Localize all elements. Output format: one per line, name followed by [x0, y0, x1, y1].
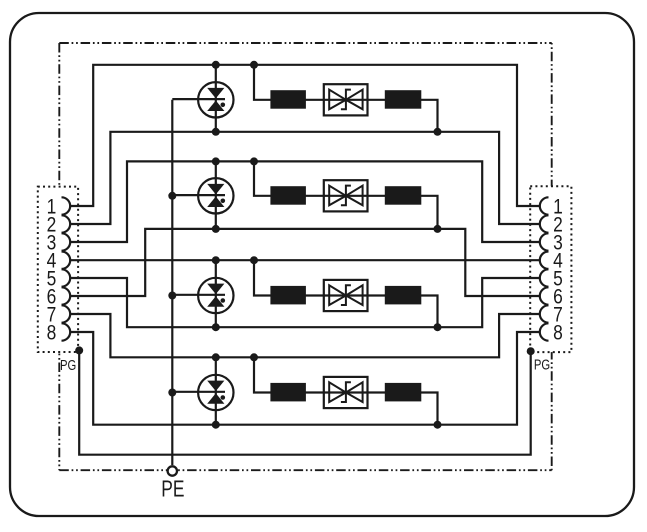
junction left PG node — [75, 346, 83, 354]
junction pair4 series end node — [434, 421, 442, 429]
junction pair2 series tap node — [250, 157, 258, 165]
wire line 4 (L4 to R4, pair 3 top bus) — [70, 259, 540, 261]
pin 2 right: contact arc and number — [540, 213, 563, 237]
junction pair4 PE bus node — [168, 389, 176, 397]
junction pair2 PE bus node — [168, 192, 176, 200]
suppressor diode V3 (bidirectional TVS in box) — [324, 280, 368, 311]
svg-text:8: 8 — [47, 321, 57, 345]
pin 1 left: contact arc and number — [47, 195, 71, 219]
wire pair3 series protection branch — [254, 260, 438, 327]
junction pair2 series end node — [434, 225, 442, 233]
wire pair2 series protection branch — [254, 161, 438, 229]
junction pair3 series tap node — [250, 256, 258, 264]
junction pair2 GDT top node — [212, 157, 220, 165]
wire pair2 GDT electrode to PE bus — [172, 194, 225, 196]
junction pair4 GDT top node — [212, 353, 220, 361]
wire pair4 GDT electrode to PE bus — [172, 391, 225, 393]
connector J1 left (dotted outline) — [38, 187, 78, 352]
pin 1 right: contact arc and number — [540, 195, 563, 219]
pin 6 right: contact arc and number — [540, 285, 563, 309]
resistor R3b (series decoupling, right) — [385, 286, 422, 305]
connector J2 right (dotted outline) — [530, 186, 571, 352]
resistor R3a (series decoupling, left) — [270, 286, 306, 305]
pin 8 left: contact arc and number — [47, 321, 71, 345]
gas discharge tube F1 (3-electrode arrester) — [198, 82, 233, 117]
wire pair3 GDT vertical branch — [215, 260, 217, 327]
junction pair4 GDT bottom node — [212, 421, 220, 429]
pin 8 right: contact arc and number — [540, 321, 563, 345]
pin 5 right: contact arc and number — [540, 267, 563, 291]
resistor R4b (series decoupling, right) — [385, 383, 422, 402]
wire pair3 GDT electrode to PE bus — [172, 294, 225, 296]
wire pair1 GDT vertical branch — [215, 65, 217, 132]
wire line 2 (L2 to R2, pair 1 bottom bus) — [70, 132, 540, 224]
junction pair2 GDT bottom node — [212, 225, 220, 233]
junction pair3 series end node — [434, 323, 442, 331]
pin 3 left: contact arc and number — [47, 231, 71, 255]
junction pair1 GDT top node — [212, 61, 220, 69]
wire line 6 (L6 to R6, pair 2 bottom bus) — [70, 229, 540, 296]
junction pair4 series tap node — [250, 353, 258, 361]
suppressor diode V2 (bidirectional TVS in box) — [324, 180, 368, 211]
protective-circuit boundary (dash-dot frame) — [59, 43, 551, 470]
gas discharge tube F2 (3-electrode arrester) — [198, 178, 233, 213]
resistor R2b (series decoupling, right) — [385, 186, 422, 205]
resistor R1b (series decoupling, right) — [385, 90, 422, 109]
wire pair4 GDT vertical branch — [215, 357, 217, 424]
junction right PG node — [527, 347, 535, 355]
pin 2 left: contact arc and number — [47, 213, 71, 237]
wire pair1 series protection branch — [254, 65, 438, 132]
pin 7 right: contact arc and number — [540, 303, 563, 327]
pin 4 left: contact arc and number — [47, 249, 71, 273]
resistor R2a (series decoupling, left) — [270, 186, 306, 205]
wire line 7 (L7 to R7, pair 4 top bus) — [70, 314, 540, 357]
junction pair1 GDT bottom node — [212, 128, 220, 136]
suppressor diode V4 (bidirectional TVS in box) — [324, 377, 368, 408]
svg-text:PG: PG — [60, 356, 76, 373]
gas discharge tube F3 (3-electrode arrester) — [198, 278, 233, 313]
PE terminal (open circle) — [168, 466, 177, 475]
wire line 1 (L1 to R1, pair 1 top bus) — [70, 65, 540, 206]
pin 3 right: contact arc and number — [540, 231, 563, 255]
svg-text:PG: PG — [534, 356, 550, 373]
pin 4 right: contact arc and number — [540, 249, 563, 273]
junction pair3 PE bus node — [168, 292, 176, 300]
wire PG shield bond (left PG to right PG) — [79, 350, 531, 454]
wire line 3 (L3 to R3, pair 2 top bus) — [70, 161, 540, 242]
junction pair1 series tap node — [250, 61, 258, 69]
wire pair4 series protection branch — [254, 357, 438, 424]
resistor R1a (series decoupling, left) — [270, 90, 306, 109]
gas discharge tube F4 (3-electrode arrester) — [198, 375, 233, 410]
pin 6 left: contact arc and number — [47, 285, 71, 309]
wire PE bus (vertical to PE terminal) — [171, 100, 173, 465]
wire pair2 GDT vertical branch — [215, 161, 217, 229]
pin 7 left: contact arc and number — [47, 303, 71, 327]
pin 5 left: contact arc and number — [47, 267, 71, 291]
resistor R4a (series decoupling, left) — [270, 383, 306, 402]
svg-text:PE: PE — [161, 476, 184, 502]
wire pair1 GDT electrode to PE bus — [172, 98, 225, 100]
wire line 5 (L5 to R5, pair 3 bottom bus) — [70, 278, 540, 327]
junction pair1 series end node — [434, 128, 442, 136]
suppressor diode V1 (bidirectional TVS in box) — [324, 84, 368, 115]
wire line 8 (L8 to R8, pair 4 bottom bus) — [70, 332, 540, 425]
junction pair3 GDT top node — [212, 256, 220, 264]
junction pair3 GDT bottom node — [212, 323, 220, 331]
svg-text:8: 8 — [553, 321, 563, 345]
